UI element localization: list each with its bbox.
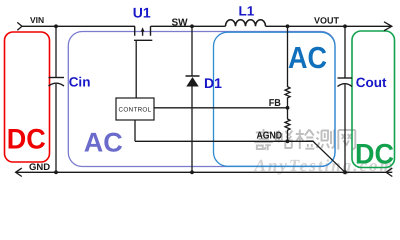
watermark hanzi 网 bbox=[338, 130, 355, 150]
watermark hanzi 测 bbox=[317, 130, 335, 149]
CONTROL block bbox=[116, 98, 154, 120]
junction VIN node dot bbox=[54, 24, 58, 28]
wire: U1 gate down to CONTROL bbox=[135, 40, 137, 98]
junction node dot (Cout column top) bbox=[343, 24, 347, 28]
wire: VIN column through Cin bbox=[55, 26, 57, 172]
capacitor Cin (electrolytic) bbox=[49, 78, 65, 87]
svg-text:Cin: Cin bbox=[69, 74, 91, 89]
arrow: VOUT output current (points right) bbox=[384, 22, 392, 31]
wire: top rail from U1 to L1 bbox=[151, 25, 226, 27]
junction ground dot (VIN column) bbox=[54, 170, 58, 174]
resistor R-top (feedback divider upper) bbox=[285, 26, 290, 108]
wire: top rail from L1 to VOUT arrow bbox=[266, 25, 392, 27]
capacitor Cout (electrolytic) bbox=[338, 78, 353, 87]
svg-text:FB: FB bbox=[269, 98, 281, 109]
svg-text:VIN: VIN bbox=[30, 15, 44, 25]
junction node dot (FB column top) bbox=[286, 24, 290, 28]
resistor R-bottom (feedback divider lower) bbox=[285, 108, 290, 142]
svg-text:DC: DC bbox=[7, 123, 46, 155]
svg-text:AC: AC bbox=[84, 127, 123, 157]
transistor U1 (switch MOSFET) bbox=[134, 26, 152, 40]
junction FB node dot bbox=[286, 106, 290, 110]
junction ground dot (D1 column) bbox=[190, 170, 194, 174]
DC input loop box (red) bbox=[5, 32, 50, 162]
AC loop 1 box (violet) bbox=[68, 32, 335, 167]
svg-text:AGND: AGND bbox=[257, 131, 283, 142]
watermark hanzi 峪 bbox=[276, 131, 293, 149]
diode D1 bbox=[186, 76, 200, 87]
wire: SW column through D1 bbox=[191, 26, 193, 172]
arrow: ground return out (points left, bottom-left) bbox=[16, 168, 22, 176]
junction AGND node dot bbox=[286, 139, 290, 143]
svg-text:SW: SW bbox=[172, 17, 189, 28]
svg-text:U1: U1 bbox=[133, 4, 151, 20]
svg-text:VOUT: VOUT bbox=[314, 16, 340, 26]
DC output loop box (green) bbox=[352, 31, 395, 168]
wire: Cout column bbox=[344, 26, 346, 172]
wire: top rail left (VIN input to U1) bbox=[22, 25, 135, 27]
svg-text:L1: L1 bbox=[239, 4, 255, 19]
wire: AGND net with diagonal to ground rail bbox=[135, 141, 345, 172]
svg-text:GND: GND bbox=[29, 162, 50, 173]
inductor L1 bbox=[226, 20, 266, 27]
AC loop 2 box (blue) bbox=[214, 32, 336, 166]
wire: CONTROL to FB node bbox=[154, 107, 288, 109]
watermark hanzi 检 bbox=[296, 130, 315, 150]
junction ground dot (Cout column / AGND) bbox=[343, 170, 347, 174]
svg-text:CONTROL: CONTROL bbox=[119, 106, 152, 113]
arrow: ground return in (points left, bottom-right) bbox=[386, 168, 392, 176]
junction SW node dot bbox=[190, 24, 194, 28]
wire: bottom ground rail bbox=[16, 171, 393, 173]
svg-text:Cout: Cout bbox=[356, 75, 387, 90]
svg-text:D1: D1 bbox=[204, 75, 222, 91]
svg-text:AC: AC bbox=[288, 41, 327, 75]
wire: CONTROL down to AGND bbox=[134, 120, 136, 141]
watermark hanzi 嘉 bbox=[254, 129, 272, 150]
arrow: VIN input current (points right) bbox=[17, 22, 22, 30]
svg-text:DC: DC bbox=[355, 138, 394, 170]
